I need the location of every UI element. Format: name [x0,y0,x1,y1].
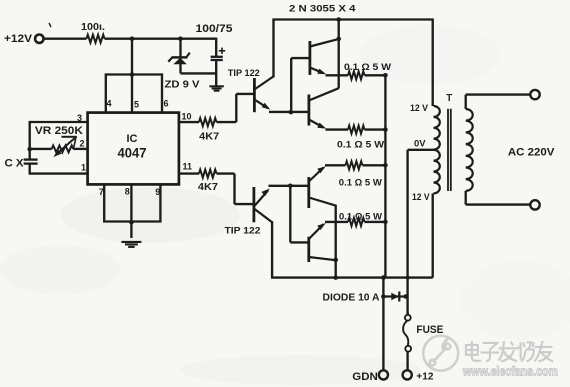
svg-text:12 V: 12 V [410,103,429,114]
svg-text:0V: 0V [414,138,426,149]
svg-text:10: 10 [182,112,192,122]
svg-text:4K7: 4K7 [199,132,219,143]
svg-text:100ι.: 100ι. [81,22,105,33]
svg-text:+12: +12 [416,370,433,382]
svg-text:AC 220V: AC 220V [508,146,555,158]
svg-text:100/75: 100/75 [196,23,233,35]
svg-text:4047: 4047 [118,144,147,160]
svg-text:+12V: +12V [4,33,33,45]
svg-text:www.elecfans.com: www.elecfans.com [462,364,558,379]
svg-text:12 V: 12 V [412,192,430,203]
svg-text:C X: C X [5,157,25,169]
svg-text:VR 250K: VR 250K [35,125,83,137]
svg-text:6: 6 [164,99,169,109]
svg-text:GDN: GDN [352,371,378,383]
svg-text:ZD 9 V: ZD 9 V [165,79,200,90]
svg-text:0.1 Ω 5 W: 0.1 Ω 5 W [339,211,383,222]
svg-text:TIP 122: TIP 122 [225,226,261,236]
svg-text:0.1 Ω 5 W: 0.1 Ω 5 W [337,139,385,150]
svg-text:8: 8 [125,187,130,197]
svg-text:2: 2 [79,139,84,149]
svg-text:11: 11 [183,162,193,172]
svg-text:0.1 Ω 5 W: 0.1 Ω 5 W [344,62,392,73]
svg-text:FUSE: FUSE [416,324,443,336]
svg-text:0.1 Ω 5 W: 0.1 Ω 5 W [339,178,383,189]
svg-text:TIP 122: TIP 122 [228,68,260,78]
svg-text:DIODE 10 A: DIODE 10 A [323,292,380,303]
svg-text:T: T [446,93,452,104]
svg-text:4: 4 [107,99,112,109]
svg-text:2 N 3055 X 4: 2 N 3055 X 4 [289,4,357,14]
svg-text:1: 1 [81,163,86,173]
svg-text:5: 5 [134,100,139,110]
svg-text:4K7: 4K7 [198,182,218,193]
